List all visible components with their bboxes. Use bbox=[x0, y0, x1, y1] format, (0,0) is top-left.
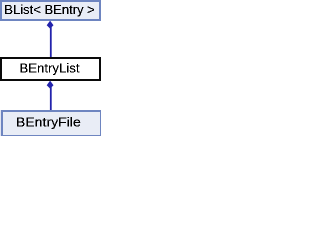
background bbox=[0, 0, 101, 136]
class inheritance diagram bbox=[0, 0, 101, 136]
wire arrow from BEntryList to BList bbox=[47, 21, 54, 57]
node BEntryList box bbox=[0, 57, 101, 81]
svg-text:BEntryList: BEntryList bbox=[20, 60, 80, 75]
node BList< BEntry > box bbox=[0, 0, 101, 21]
wire arrow from BEntryFile to BEntryList bbox=[47, 81, 54, 110]
svg-text:BEntryFile: BEntryFile bbox=[16, 114, 81, 129]
svg-text:BList< BEntry >: BList< BEntry > bbox=[4, 2, 95, 17]
node BEntryFile box (clipped at right and bottom edges) bbox=[1, 110, 102, 137]
